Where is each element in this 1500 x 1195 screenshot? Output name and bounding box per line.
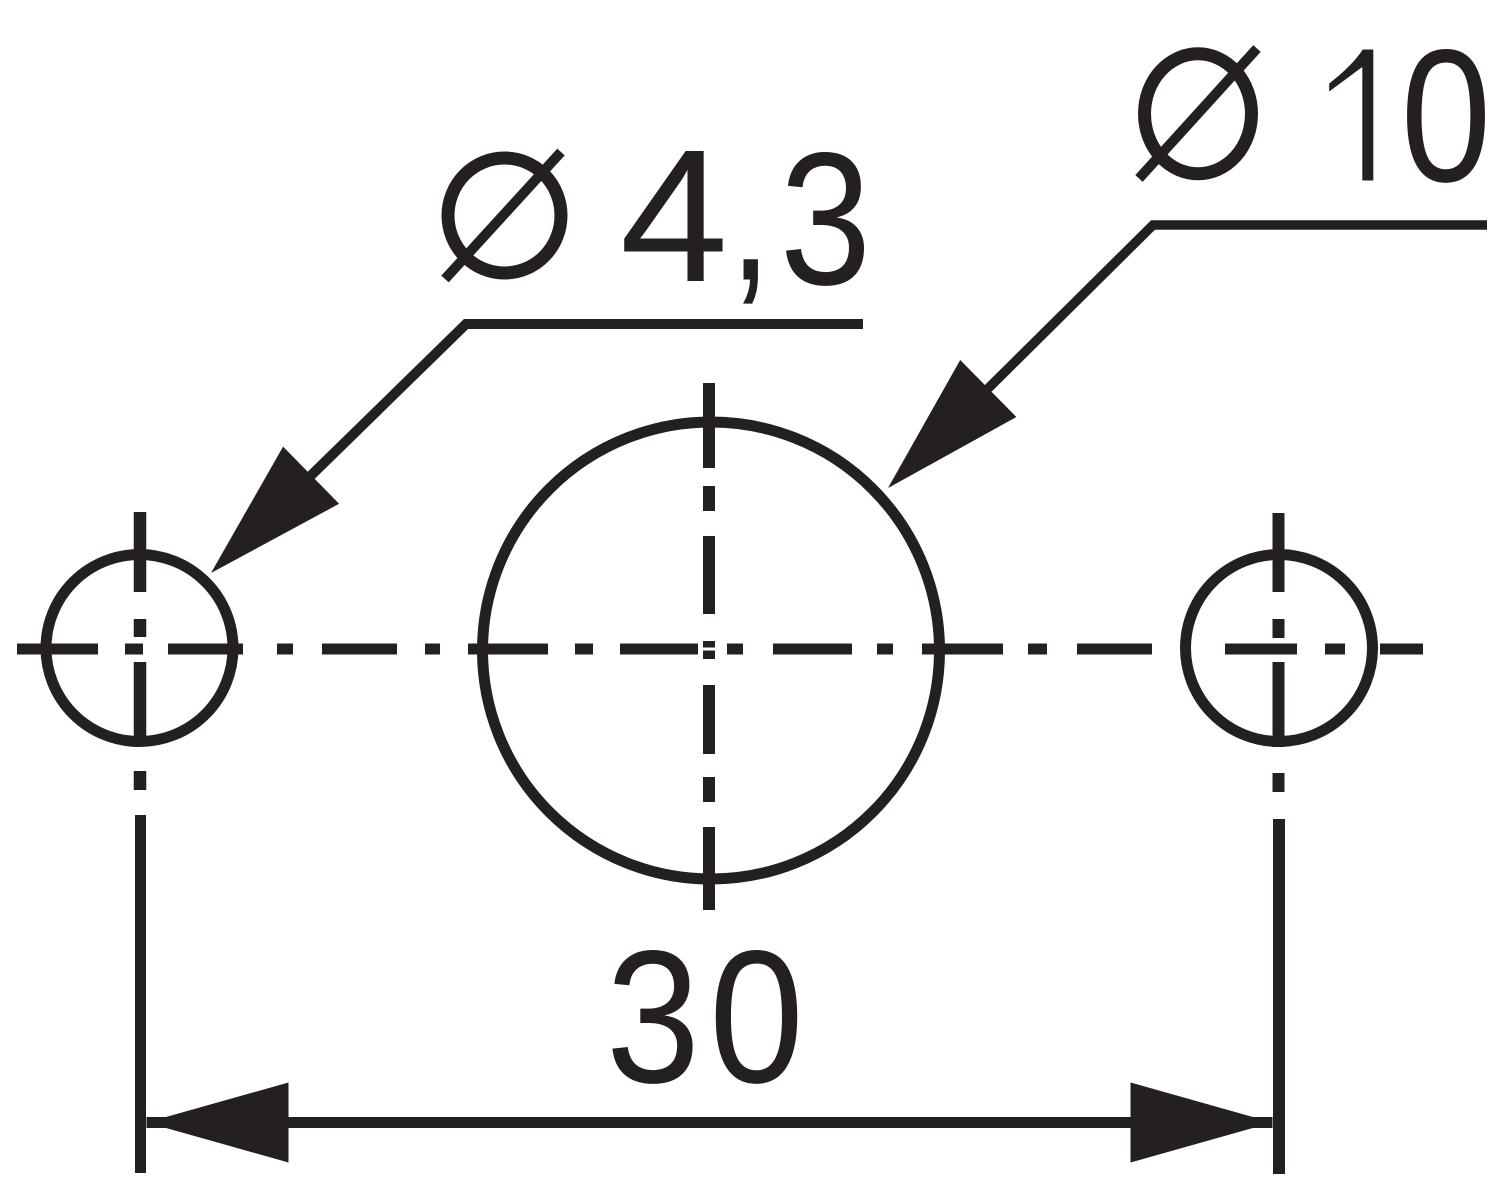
svg-text:0: 0 [709, 912, 804, 1123]
svg-text:3: 3 [606, 912, 700, 1123]
extension line left [135, 815, 146, 1173]
hole left small circle Ø4.3 [46, 555, 233, 742]
diameter symbol of label Ø4.3 [445, 152, 561, 279]
leader line Ø4.3 [246, 324, 863, 539]
svg-text:,: , [729, 109, 771, 320]
dimension line 30 [147, 1117, 1273, 1128]
centerline vertical left circle [134, 512, 147, 790]
diameter symbol of label Ø10 [1139, 49, 1257, 179]
extension line right [1273, 819, 1285, 1174]
dimension arrowhead left [147, 1083, 289, 1163]
centerline vertical right circle [1273, 513, 1285, 792]
svg-text:3: 3 [780, 113, 871, 324]
centerline vertical large circle [703, 383, 715, 910]
centerline horizontal dash-dot [17, 644, 1423, 655]
leader arrowhead Ø4.3 [211, 447, 339, 573]
centerline center dot lower (large circle) [703, 651, 715, 660]
hole right small circle Ø4.3 [1186, 555, 1373, 742]
svg-text:0: 0 [1401, 11, 1492, 222]
dimension arrowhead right [1131, 1083, 1273, 1163]
leader line Ø10 [923, 225, 1487, 453]
label text 1 (custom glyph, no foot) [1329, 50, 1373, 181]
centerline center dot upper (large circle) [703, 641, 715, 648]
svg-text:4: 4 [620, 110, 728, 322]
hole center large circle Ø10 [483, 422, 940, 879]
leader arrowhead Ø10 [888, 360, 1016, 488]
